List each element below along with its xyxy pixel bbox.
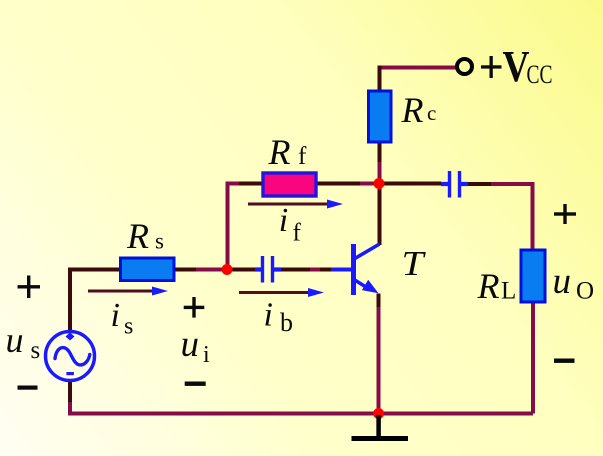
source bottom dash xyxy=(66,372,74,375)
svg-text:s: s xyxy=(155,229,164,254)
wire Rs right xyxy=(174,268,198,272)
resistor Rc xyxy=(369,91,392,142)
source top diamond xyxy=(66,333,75,341)
wire emitter down xyxy=(377,294,381,311)
wire J3 to base cap xyxy=(232,268,256,272)
label minus right xyxy=(554,359,575,363)
wire corner down to Rc top xyxy=(378,66,382,93)
wire source bottom xyxy=(68,380,72,405)
wire source top up and to Rs xyxy=(68,268,121,333)
wire purple to right corner xyxy=(491,182,533,251)
svg-text:O: O xyxy=(576,277,594,304)
wire top from Vcc terminal to corner xyxy=(378,66,457,70)
svg-text:R: R xyxy=(268,132,291,172)
svg-text:s: s xyxy=(124,314,133,340)
label plus right xyxy=(554,204,576,224)
svg-text:u: u xyxy=(553,261,572,302)
svg-text:R: R xyxy=(126,216,149,256)
wire bottom rail xyxy=(68,412,533,416)
Vcc terminal circle xyxy=(457,59,472,74)
svg-text:i: i xyxy=(279,202,288,239)
wire Rf branch horizontal dark xyxy=(239,182,264,186)
arrow is xyxy=(88,290,157,293)
source us circle xyxy=(46,332,95,381)
svg-text:R: R xyxy=(477,266,500,306)
node J2 (emitter/ground junction) xyxy=(373,408,384,419)
wire Rc bottom down xyxy=(378,142,382,164)
wire Rf right to J1 xyxy=(316,182,362,186)
resistor RL xyxy=(521,250,545,302)
wire RL bottom down xyxy=(531,302,535,414)
label minus left xyxy=(18,386,38,390)
svg-text:u: u xyxy=(6,320,24,360)
node J3 (base junction) xyxy=(222,264,233,275)
transistor emitter arrowhead xyxy=(362,280,379,294)
resistor Rf xyxy=(263,173,316,196)
svg-text:s: s xyxy=(31,337,41,364)
source sine wave xyxy=(55,348,90,365)
svg-text:f: f xyxy=(298,143,307,170)
transistor T xyxy=(331,244,380,295)
label plus mid xyxy=(184,297,205,318)
wire purple above bottom node xyxy=(377,307,381,411)
svg-text:u: u xyxy=(181,324,200,365)
resistor Rs xyxy=(121,258,175,281)
wire purple left of J3 xyxy=(196,268,222,272)
label minus mid xyxy=(185,382,206,386)
svg-text:i: i xyxy=(264,297,273,334)
wire output cap right xyxy=(468,182,493,186)
wire J1 down to collector xyxy=(378,184,382,245)
wire purple above node J1 xyxy=(378,162,382,181)
svg-text:c: c xyxy=(427,101,436,125)
capacitor C2 (output) xyxy=(441,171,468,198)
capacitor C1 (base) xyxy=(255,256,281,283)
svg-text:R: R xyxy=(401,90,424,130)
wire source bottom corner purple xyxy=(68,402,72,412)
wire base cap to base lead xyxy=(280,268,332,272)
svg-text:i: i xyxy=(111,297,120,334)
svg-text:L: L xyxy=(501,278,516,305)
arrow if xyxy=(248,203,328,206)
ground xyxy=(376,415,381,436)
svg-text:b: b xyxy=(280,308,293,337)
wire Rf branch vertical purple xyxy=(226,184,242,268)
node J1 (collector junction) xyxy=(374,178,385,189)
svg-text:CC: CC xyxy=(527,60,553,89)
svg-text:i: i xyxy=(203,342,210,368)
wire J1 to output cap xyxy=(384,182,441,186)
label +Vcc xyxy=(481,42,553,91)
wire purple blip before base xyxy=(310,268,320,272)
arrow ib xyxy=(239,291,312,294)
wire purple left of J1 xyxy=(360,182,375,186)
label plus left xyxy=(18,276,41,299)
svg-text:T: T xyxy=(402,244,427,283)
svg-text:f: f xyxy=(293,220,302,247)
